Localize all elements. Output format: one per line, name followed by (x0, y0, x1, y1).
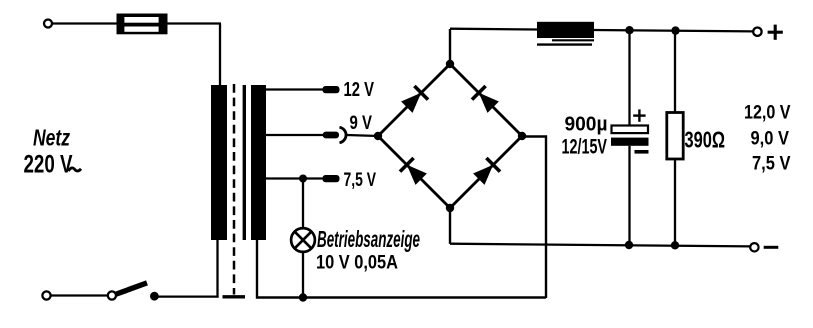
wire resistor bottom (674, 159, 676, 245)
socket arc 9V (340, 127, 347, 142)
transformer core dashed line (233, 84, 236, 295)
terminal 7.5V (323, 175, 340, 182)
node switch (150, 292, 159, 301)
transformer T1 primary winding (211, 85, 227, 240)
node bridge bottom (446, 204, 454, 212)
node bridge right (518, 132, 526, 140)
wire 9V to bridge (347, 135, 378, 136)
diode D1 top-left (401, 86, 428, 113)
capacitor minus sign (635, 150, 649, 154)
wire (167, 22, 221, 24)
resistor R1 (667, 113, 683, 160)
terminal 9V plug (323, 132, 339, 139)
svg-text:9 V: 9 V (350, 112, 373, 134)
core ground T-bar (223, 295, 246, 298)
wire bridge bottom riser (449, 208, 451, 244)
wire bridge top riser (449, 29, 451, 64)
wire (52, 22, 118, 24)
svg-text:Betriebsanzeige: Betriebsanzeige (317, 226, 420, 252)
wire lamp bottom (302, 252, 304, 298)
diode D3 bottom-left (400, 158, 427, 185)
fuse F1 (117, 14, 168, 35)
terminal mains top (44, 20, 52, 28)
wire tap 9V (266, 134, 323, 136)
svg-text:390Ω: 390Ω (685, 126, 726, 152)
wire AC2 riser (524, 137, 546, 299)
transformer core line (243, 85, 246, 240)
wire capacitor bottom (628, 146, 630, 245)
node resistor top (671, 26, 679, 34)
terminal mains bottom (42, 291, 50, 299)
svg-text:9,0 V: 9,0 V (751, 128, 790, 150)
wire primary bottom (216, 240, 218, 298)
svg-text:7,5 V: 7,5 V (752, 153, 791, 175)
capacitor C1 (611, 126, 649, 146)
svg-text:220 V: 220 V (24, 150, 73, 178)
node tap junction (299, 175, 307, 183)
wire plus rail (450, 29, 753, 32)
svg-text:Netz: Netz (33, 124, 70, 150)
terminal plus (753, 28, 761, 36)
plus sign (768, 25, 783, 40)
terminal 12V (323, 86, 340, 93)
wire lamp top (302, 179, 304, 230)
node cap bottom (625, 241, 633, 249)
wire switch to primary (154, 295, 218, 297)
svg-text:10 V 0,05A: 10 V 0,05A (316, 251, 398, 273)
wire (51, 294, 109, 296)
minus sign (764, 246, 779, 249)
wire tap 7.5V (266, 177, 323, 179)
node bridge top (446, 60, 454, 68)
svg-text:7,5 V: 7,5 V (344, 169, 377, 191)
svg-text:12 V: 12 V (344, 78, 375, 101)
node resistor bottom (671, 241, 679, 249)
lamp La1 (291, 228, 315, 252)
wire minus rail (450, 244, 750, 247)
wire secondary bottom (257, 240, 546, 298)
svg-text:900µ: 900µ (565, 113, 608, 136)
terminal minus (750, 243, 758, 251)
capacitor plus sign (633, 109, 645, 121)
switch S1 (108, 283, 147, 300)
wire tap 12V (266, 88, 323, 90)
wire (219, 24, 221, 87)
wire capacitor top (628, 30, 630, 126)
transformer T1 secondary winding (251, 85, 266, 240)
diode D4 bottom-right (473, 158, 500, 185)
node cap top (625, 26, 633, 34)
label 220V (24, 150, 82, 178)
diode D2 top-right (472, 86, 499, 113)
wire resistor top (674, 31, 676, 113)
bridge rectifier edges (378, 64, 522, 208)
node bridge left (374, 132, 382, 140)
node lamp bottom (299, 293, 307, 301)
choke L1 (537, 22, 594, 45)
svg-text:12,0 V: 12,0 V (744, 102, 791, 124)
svg-text:12/15V: 12/15V (562, 136, 608, 159)
